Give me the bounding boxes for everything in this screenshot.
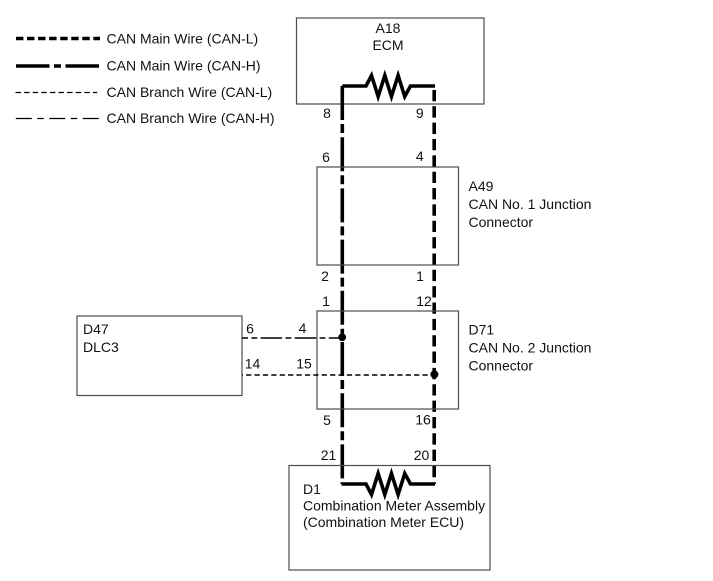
wire: CAN-H branch (DLC3 to CAN-H main) thin dash-dot xyxy=(242,337,342,339)
svg-text:CAN Branch Wire (CAN-L): CAN Branch Wire (CAN-L) xyxy=(107,84,273,100)
svg-text:D1: D1 xyxy=(303,481,321,497)
svg-text:4: 4 xyxy=(416,148,424,164)
junction node on CAN-L main xyxy=(430,370,438,378)
svg-text:Connector: Connector xyxy=(469,358,534,374)
terminating resistor inside D1 xyxy=(342,474,436,495)
svg-text:ECM: ECM xyxy=(372,37,403,53)
svg-text:15: 15 xyxy=(296,356,312,372)
svg-text:16: 16 xyxy=(415,412,431,428)
wire: CAN-L main (right vertical, thick dashed) xyxy=(432,86,436,484)
svg-text:20: 20 xyxy=(414,447,430,463)
legend sample: CAN Main Wire (CAN-H) thick dash-dot xyxy=(16,64,100,68)
ECU block A18 (ECM) xyxy=(297,18,485,104)
svg-text:CAN Main Wire (CAN-H): CAN Main Wire (CAN-H) xyxy=(107,58,261,74)
svg-text:9: 9 xyxy=(416,105,424,121)
legend sample: CAN Branch Wire (CAN-L) thin dashed xyxy=(16,92,98,94)
svg-text:2: 2 xyxy=(321,268,329,284)
svg-text:A18: A18 xyxy=(376,20,401,36)
ECU block D1 (Combination Meter) xyxy=(289,466,490,571)
terminating resistor inside A18 xyxy=(342,76,435,97)
svg-text:D47: D47 xyxy=(83,321,109,337)
wire: CAN-H main (left vertical, thick dash-dot) xyxy=(340,86,344,484)
svg-text:DLC3: DLC3 xyxy=(83,339,119,355)
legend sample: CAN Main Wire (CAN-L) thick dashed xyxy=(16,37,100,41)
svg-text:12: 12 xyxy=(416,293,432,309)
svg-text:CAN Main Wire (CAN-L): CAN Main Wire (CAN-L) xyxy=(107,30,259,46)
junction connector D71 xyxy=(317,311,591,409)
svg-text:21: 21 xyxy=(321,447,337,463)
svg-text:14: 14 xyxy=(245,356,261,372)
svg-text:A49: A49 xyxy=(469,178,494,194)
svg-text:5: 5 xyxy=(323,412,331,428)
svg-text:6: 6 xyxy=(322,149,330,165)
svg-text:1: 1 xyxy=(322,293,330,309)
svg-text:1: 1 xyxy=(416,268,424,284)
junction connector A49 xyxy=(317,167,591,265)
wire: CAN-L branch (DLC3 to CAN-L main) thin dashed xyxy=(242,374,434,376)
svg-text:Connector: Connector xyxy=(469,214,534,230)
svg-text:8: 8 xyxy=(323,105,331,121)
junction node on CAN-H main xyxy=(338,333,346,341)
svg-text:Combination Meter Assembly: Combination Meter Assembly xyxy=(303,498,485,514)
svg-text:CAN No. 2 Junction: CAN No. 2 Junction xyxy=(469,340,592,356)
connector D47 (DLC3) xyxy=(77,316,242,396)
svg-text:6: 6 xyxy=(246,321,254,337)
svg-text:CAN Branch Wire (CAN-H): CAN Branch Wire (CAN-H) xyxy=(107,110,275,126)
svg-text:CAN No. 1 Junction: CAN No. 1 Junction xyxy=(469,196,592,212)
legend sample: CAN Branch Wire (CAN-H) thin dash-dot xyxy=(16,118,99,120)
svg-text:(Combination Meter ECU): (Combination Meter ECU) xyxy=(303,514,464,530)
svg-text:D71: D71 xyxy=(469,322,495,338)
svg-text:4: 4 xyxy=(299,320,307,336)
